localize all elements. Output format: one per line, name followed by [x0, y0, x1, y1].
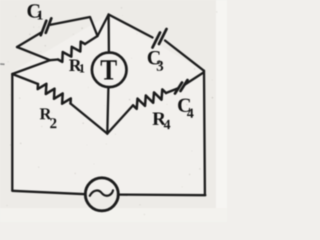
label R1 — [69, 60, 84, 73]
label C3 — [148, 51, 163, 71]
wire: R4 to node B — [107, 105, 133, 133]
label R4 — [153, 113, 171, 130]
scan background — [0, 0, 227, 222]
label C4 — [178, 99, 194, 118]
capacitor C1 — [41, 21, 47, 35]
label R2 — [40, 108, 57, 128]
label C1 — [28, 4, 43, 19]
wire: C3 to right vertex — [165, 41, 204, 71]
wire: parallelogram lower edge left part — [17, 47, 58, 60]
wire: left edge vertical — [11, 74, 13, 191]
wire: parallelogram top edge with C1 gap — [51, 17, 98, 36]
wire: right vertex to C4 — [185, 73, 204, 85]
resistor R1 — [58, 42, 85, 62]
capacitor C3 — [153, 33, 161, 48]
wire: top vertex to C3 — [109, 15, 153, 38]
wire: bottom rail right — [118, 193, 205, 196]
wire: top vertex down-left to parallelogram right corner — [98, 15, 109, 37]
wire: left vertex to R2 — [12, 74, 38, 84]
wire: bottom rail left — [12, 191, 85, 194]
page interior lighter — [12, 15, 205, 195]
wire: left vertex up to parallelogram join — [12, 60, 50, 74]
capacitor C4 — [181, 80, 188, 91]
wire: C4 to R4 — [166, 89, 178, 94]
wire: detector bottom to node B — [107, 87, 108, 133]
label T in detector — [101, 60, 117, 79]
left edge scan mark — [0, 63, 5, 65]
sine wave in source — [90, 190, 113, 196]
wire: right edge vertical — [203, 71, 206, 195]
wire: top vertex to detector top — [107, 15, 110, 53]
wire: R2 to node B — [71, 104, 108, 134]
resistor R4 — [133, 89, 166, 109]
detector circle U1 — [92, 53, 127, 88]
resistor R2 — [38, 84, 71, 104]
wire: R1 to parallelogram right corner — [85, 36, 98, 44]
scan noise speckles — [6, 7, 217, 215]
source circle — [85, 178, 118, 211]
